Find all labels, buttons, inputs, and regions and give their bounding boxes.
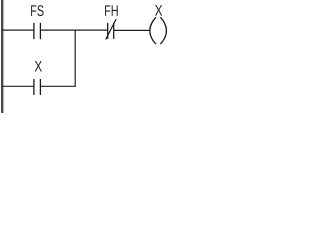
label X (coil) [155, 5, 162, 16]
contact FS (normally open) [34, 23, 41, 39]
wire X contact to vertical branch [40, 85, 75, 87]
label FS [31, 5, 43, 16]
label X (branch contact) [35, 61, 42, 72]
wire rail to FS contact [2, 29, 34, 31]
vertical branch wire [74, 30, 76, 86]
coil X [150, 17, 167, 44]
left power rail [1, 0, 3, 113]
wire FS to FH contact [40, 29, 107, 31]
contact FH (normally closed) [108, 23, 114, 39]
label FH [105, 5, 118, 16]
wire FH to coil [114, 29, 151, 31]
contact X (normally open, branch) [34, 79, 41, 95]
FH slash [106, 19, 117, 40]
wire rail to X contact (branch) [2, 85, 34, 87]
